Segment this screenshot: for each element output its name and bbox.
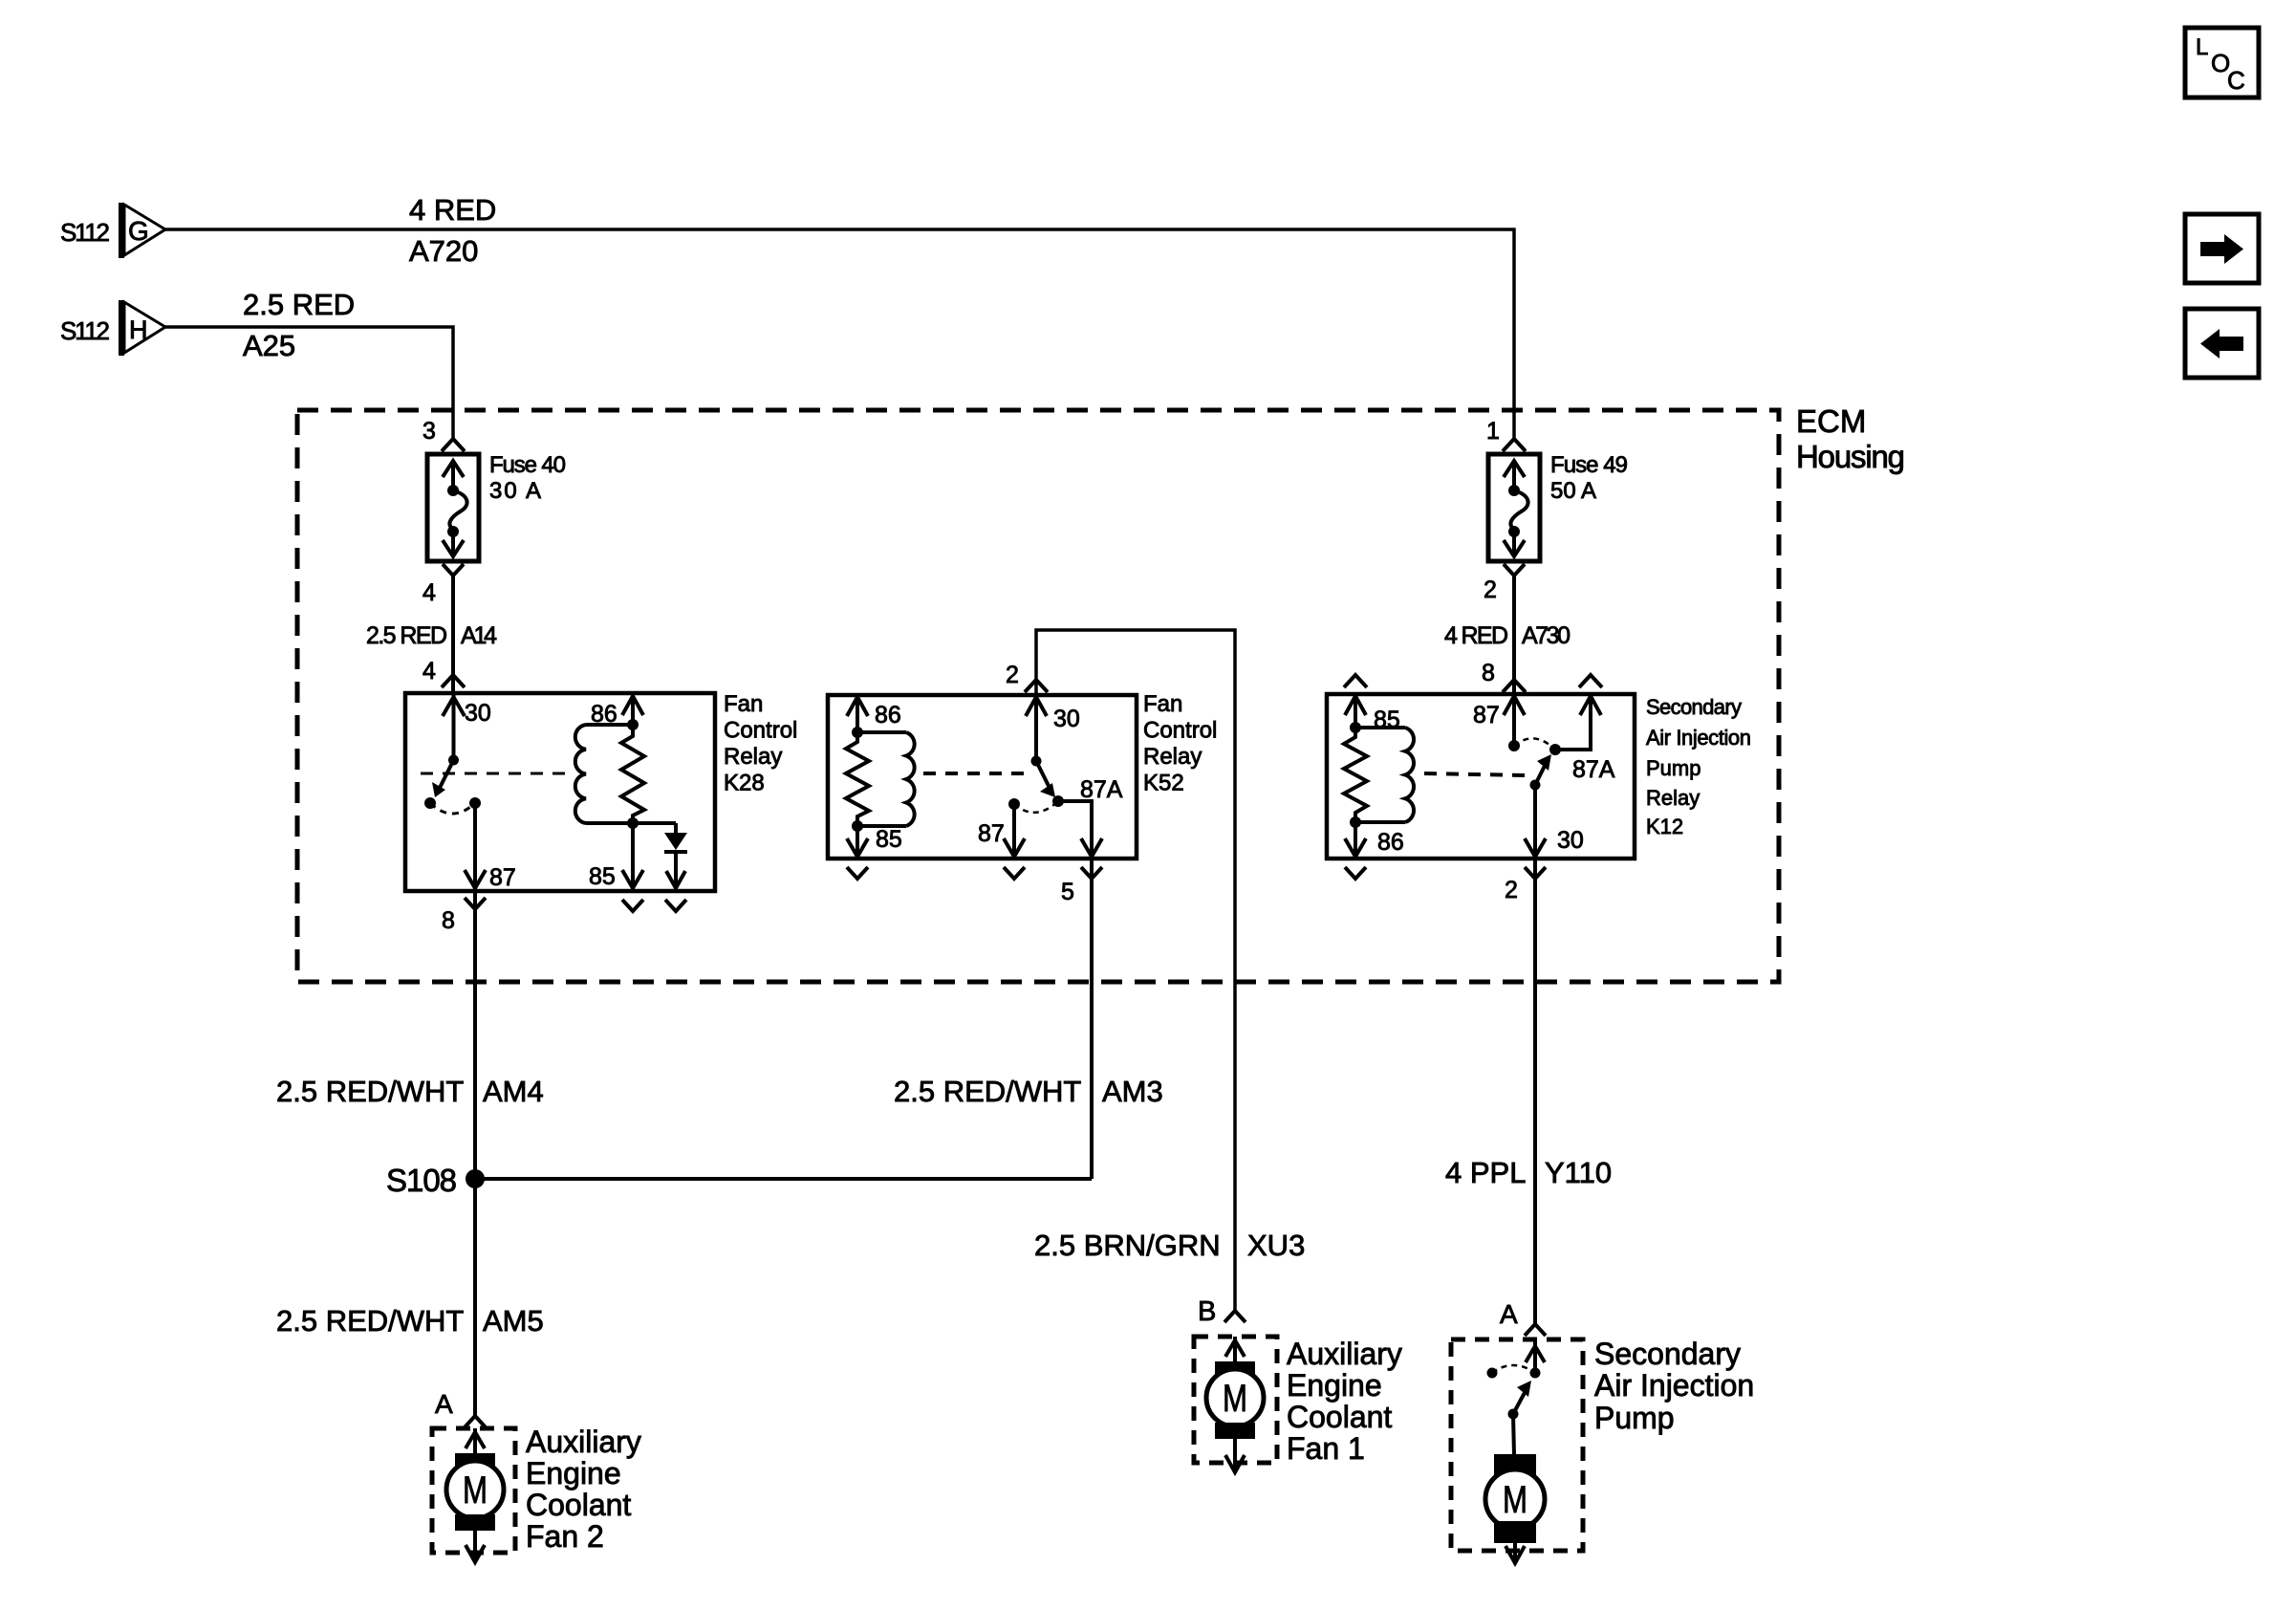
svg-text:4 RED: 4 RED [409,193,496,227]
svg-text:A: A [1500,1299,1518,1329]
Fan 1 ground wire [1233,1439,1237,1471]
svg-text:Air Injection: Air Injection [1646,726,1751,750]
K12 switch arm [1535,762,1547,785]
svg-text:Secondary: Secondary [1646,695,1742,719]
svg-text:87: 87 [489,864,516,891]
svg-text:2.5 BRN/GRN: 2.5 BRN/GRN [1034,1229,1221,1262]
K28 coil [575,725,586,823]
K52 contact dot 87 [1008,798,1020,810]
connector chevron above pump [1525,1324,1546,1336]
motor M Fan 2 [446,1453,504,1531]
Y connector below K12 pin 30 [1525,867,1546,879]
K52 resistor [846,732,869,826]
svg-text:30 A: 30 A [489,478,541,504]
K28 dashed contact arc [430,803,475,814]
K12 pin 86 wire [1354,822,1357,859]
svg-text:Relay: Relay [724,744,782,770]
pump dead contact dot [1487,1368,1498,1379]
wire K52 pin 87A down to S108 [1090,859,1094,1179]
svg-text:Secondary: Secondary [1594,1337,1741,1371]
svg-text:Air Injection: Air Injection [1594,1368,1754,1403]
svg-text:4 PPL: 4 PPL [1445,1156,1526,1189]
motor M air pump [1485,1454,1545,1543]
K52 pin 86 wire [856,695,859,732]
K12 resistor [1344,728,1367,822]
Y connector below K28 pin 87 [465,898,486,909]
svg-text:Fuse 49: Fuse 49 [1550,452,1628,478]
relay K28 box [405,693,715,891]
svg-text:85: 85 [876,826,902,853]
K28 pin 30 wire [452,693,456,760]
svg-text:30: 30 [465,700,491,727]
connector chevron above K52 [1025,680,1048,692]
svg-text:S112: S112 [60,218,110,247]
svg-text:A: A [435,1389,453,1419]
svg-text:M: M [1503,1479,1527,1521]
svg-text:Coolant: Coolant [1287,1400,1392,1434]
Fan 2 ground wire [473,1531,477,1561]
svg-text:ECM: ECM [1796,403,1866,439]
svg-text:86: 86 [875,702,901,729]
ground chevron below K28 pin 85 [622,900,643,911]
K12 pin 87 wire [1512,694,1516,746]
pump dashed contact arc [1492,1365,1535,1373]
chevron above K12 pin 87A [1579,675,1602,687]
svg-text:Fan: Fan [1143,691,1182,717]
K12 dashed contact arc [1514,738,1555,750]
K28 pin 85 wire [631,823,635,891]
Fan 1 feed wire [1233,1337,1237,1363]
K28 diode branch [633,821,676,825]
K12 switch pivot [1530,780,1541,791]
svg-text:85: 85 [589,863,616,890]
pump switch contact dot (wire side) [1530,1368,1541,1379]
K28 resistor [621,725,644,823]
svg-text:M: M [1223,1378,1247,1420]
svg-text:87A: 87A [1080,776,1123,803]
Fan 2 feed wire [473,1428,477,1455]
wire G to fuse 49 [165,229,1514,440]
svg-text:Auxiliary: Auxiliary [1287,1337,1402,1371]
svg-text:K52: K52 [1143,771,1184,796]
svg-text:2.5 RED/WHT: 2.5 RED/WHT [894,1075,1081,1108]
arrow-left legend box [2185,309,2259,378]
Y connector below fuse 49 [1504,564,1525,576]
svg-text:C: C [2227,66,2245,95]
svg-text:A730: A730 [1522,622,1570,649]
svg-text:B: B [1198,1296,1216,1327]
svg-text:L: L [2196,34,2208,60]
fuse F49 [1488,454,1540,561]
air pump dashed housing [1451,1339,1583,1551]
connector S112 G [60,203,165,258]
relay K52 box [828,695,1137,859]
svg-text:Pump: Pump [1646,756,1700,780]
pump ground wire [1513,1543,1517,1562]
arrow-right legend box [2185,214,2259,283]
svg-text:Fan 2: Fan 2 [526,1519,604,1554]
connector chevron above K28 [442,675,465,687]
motor M Fan 1 [1206,1361,1264,1439]
K52 pin 30 wire [1034,695,1038,761]
svg-text:Control: Control [1143,718,1217,744]
svg-text:30: 30 [1557,827,1584,854]
K52 coil [906,732,915,826]
svg-text:4 RED: 4 RED [1444,622,1508,649]
wire K28 pin 87 down to S108 [473,891,477,1179]
svg-text:K28: K28 [724,771,765,796]
LOC legend box [2185,28,2259,98]
svg-text:5: 5 [1061,879,1074,905]
svg-text:Coolant: Coolant [526,1488,631,1522]
Y connector below K52 pin 87A [1081,867,1102,879]
svg-text:K12: K12 [1646,815,1683,838]
K28 contact dot 87 [469,797,481,809]
K28 pin 87 wire [473,803,477,891]
svg-text:Relay: Relay [1143,744,1202,770]
svg-text:Y110: Y110 [1545,1156,1612,1189]
svg-text:8: 8 [442,907,455,934]
svg-text:Pump: Pump [1594,1401,1675,1435]
K12 pin 87A wire [1555,694,1591,750]
svg-text:Engine: Engine [526,1456,621,1490]
svg-text:87: 87 [1473,702,1500,729]
K28 contact dot (NC dead) [424,797,436,809]
svg-text:Engine: Engine [1287,1368,1382,1403]
svg-text:XU3: XU3 [1247,1229,1305,1262]
svg-text:2.5 RED: 2.5 RED [243,288,355,321]
svg-text:A720: A720 [409,234,478,268]
ground chevron below K52 pin 85 [847,867,868,879]
svg-text:Fan 1: Fan 1 [1287,1431,1365,1466]
svg-text:H: H [129,315,148,344]
chevron above K12 pin 85 [1344,675,1367,687]
wire S108 to K52 pin 5 riser [475,1177,1092,1181]
K28 pin 86 wire [631,693,635,725]
svg-text:2: 2 [1484,577,1497,603]
wire fuse 49 to relay K12 pin 87 [1512,574,1516,694]
connector chevron above fuse 40 [442,439,465,451]
svg-text:Control: Control [724,718,797,744]
K52 pin 87A wire [1058,801,1092,859]
svg-text:G: G [128,216,149,246]
connector chevron above Fan 1 [1224,1311,1245,1322]
fuse F40 [427,454,479,561]
Fan 1 dashed housing [1194,1337,1277,1463]
svg-text:30: 30 [1053,706,1080,732]
svg-text:Relay: Relay [1646,786,1700,810]
svg-text:1: 1 [1486,418,1500,445]
connector S112 H [60,300,165,356]
svg-text:50 A: 50 A [1550,478,1596,504]
relay K12 box [1327,694,1635,859]
svg-text:AM5: AM5 [483,1304,544,1338]
wire K12 pin 30 down to air pump [1533,859,1537,1324]
svg-text:S112: S112 [60,316,110,345]
svg-text:2.5 RED/WHT: 2.5 RED/WHT [276,1075,464,1108]
svg-text:Fan: Fan [724,691,763,717]
K12 dashed actuator link [1424,773,1526,775]
connector chevron above K12 pin 87 [1503,680,1526,692]
svg-text:2: 2 [1006,662,1019,688]
ground chevron below K52 pin 87 [1004,867,1025,879]
svg-text:Housing: Housing [1796,439,1905,474]
K12 pin 30 wire [1533,785,1537,859]
svg-text:Fuse 40: Fuse 40 [489,452,566,478]
K52 switch arm [1036,761,1050,788]
svg-text:2.5 RED: 2.5 RED [366,622,447,649]
svg-text:86: 86 [1377,829,1404,856]
pump motor wire [1513,1414,1514,1455]
pump feed wire [1533,1339,1537,1373]
wire H to fuse 40 [165,327,453,440]
svg-text:M: M [463,1469,487,1512]
svg-text:2.5 RED/WHT: 2.5 RED/WHT [276,1304,464,1338]
svg-text:87A: 87A [1572,756,1615,783]
K52 pin 87 wire [1012,804,1016,859]
K52 contact dot 87A [1052,795,1064,807]
ground chevron below K12 pin 86 [1345,867,1366,879]
ground chevron below K28 diode [665,900,686,911]
K28 dashed actuator link [421,772,565,775]
svg-text:2: 2 [1505,877,1518,903]
svg-text:87: 87 [978,820,1005,847]
svg-text:4: 4 [422,579,436,606]
K52 dashed actuator link [923,772,1025,775]
svg-text:3: 3 [422,418,436,445]
wire K52 pin 2 up and over to Fan 1 [1036,630,1235,1312]
K52 dashed contact arc [1014,801,1058,813]
Fan 2 dashed housing [432,1428,515,1553]
K12 coil [1405,728,1414,822]
Y connector below fuse 40 [443,564,464,576]
svg-text:Auxiliary: Auxiliary [526,1425,641,1459]
svg-text:A14: A14 [461,622,497,649]
connector chevron above fuse 49 [1503,439,1526,451]
K12 pin 85 wire [1354,694,1357,728]
K28 switch pivot [448,755,459,766]
svg-text:S108: S108 [386,1163,457,1198]
svg-text:AM3: AM3 [1102,1075,1163,1108]
K28 switch arm [439,760,454,790]
svg-text:A25: A25 [243,329,295,362]
K52 switch pivot [1031,756,1042,767]
pump switch arm [1513,1389,1527,1414]
K12 contact dot 87A [1549,744,1561,755]
svg-text:4: 4 [422,658,436,685]
connector chevron above Fan 2 [465,1416,486,1427]
ECM housing dashed box [297,410,1779,982]
splice node S108 [466,1169,485,1188]
svg-text:AM4: AM4 [483,1075,544,1108]
K52 pin 85 wire [856,826,859,859]
svg-text:8: 8 [1482,660,1495,686]
svg-text:86: 86 [591,701,617,728]
wire S108 down to Fan 2 [473,1179,477,1417]
pump switch pivot [1508,1409,1519,1420]
wire fuse 40 to relay K28 pin 30 [451,574,455,693]
